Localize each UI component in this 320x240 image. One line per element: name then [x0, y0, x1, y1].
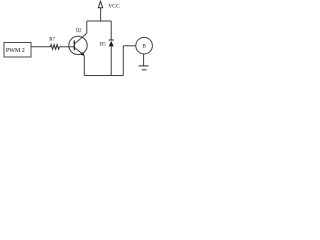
- wire R7 to Q2 base: [59, 46, 74, 48]
- wire bottom rail: [84, 75, 123, 77]
- emitter arrowhead: [81, 52, 85, 56]
- wire diode branch lower: [110, 46, 112, 75]
- svg-text:PWM 2: PWM 2: [6, 48, 25, 54]
- transistor Q2: [69, 36, 87, 54]
- diode D5 triangle: [109, 41, 114, 47]
- wire Q2 emitter down: [83, 56, 85, 76]
- wire diode branch upper: [110, 21, 112, 40]
- wire VCC lead: [100, 8, 102, 21]
- ground: [139, 65, 149, 67]
- wire top rail: [87, 20, 111, 22]
- wire Q2 collector up: [86, 21, 88, 33]
- resistor R7: [50, 45, 59, 50]
- wire buzzer branch vertical: [122, 46, 124, 76]
- PWM 2 source block: [4, 43, 31, 58]
- wire buzzer branch horizontal: [123, 45, 135, 47]
- wire B to ground: [143, 54, 145, 66]
- svg-text:B: B: [142, 44, 146, 50]
- diode D5 cathode bar: [109, 39, 114, 41]
- svg-text:D5: D5: [100, 43, 107, 48]
- power symbol VCC arrow: [98, 1, 102, 7]
- buzzer B: [136, 37, 153, 54]
- svg-text:Q2: Q2: [76, 28, 82, 33]
- svg-text:R7: R7: [49, 38, 55, 43]
- svg-text:VCC: VCC: [108, 4, 120, 10]
- wire PWM2 to R7: [31, 46, 50, 48]
